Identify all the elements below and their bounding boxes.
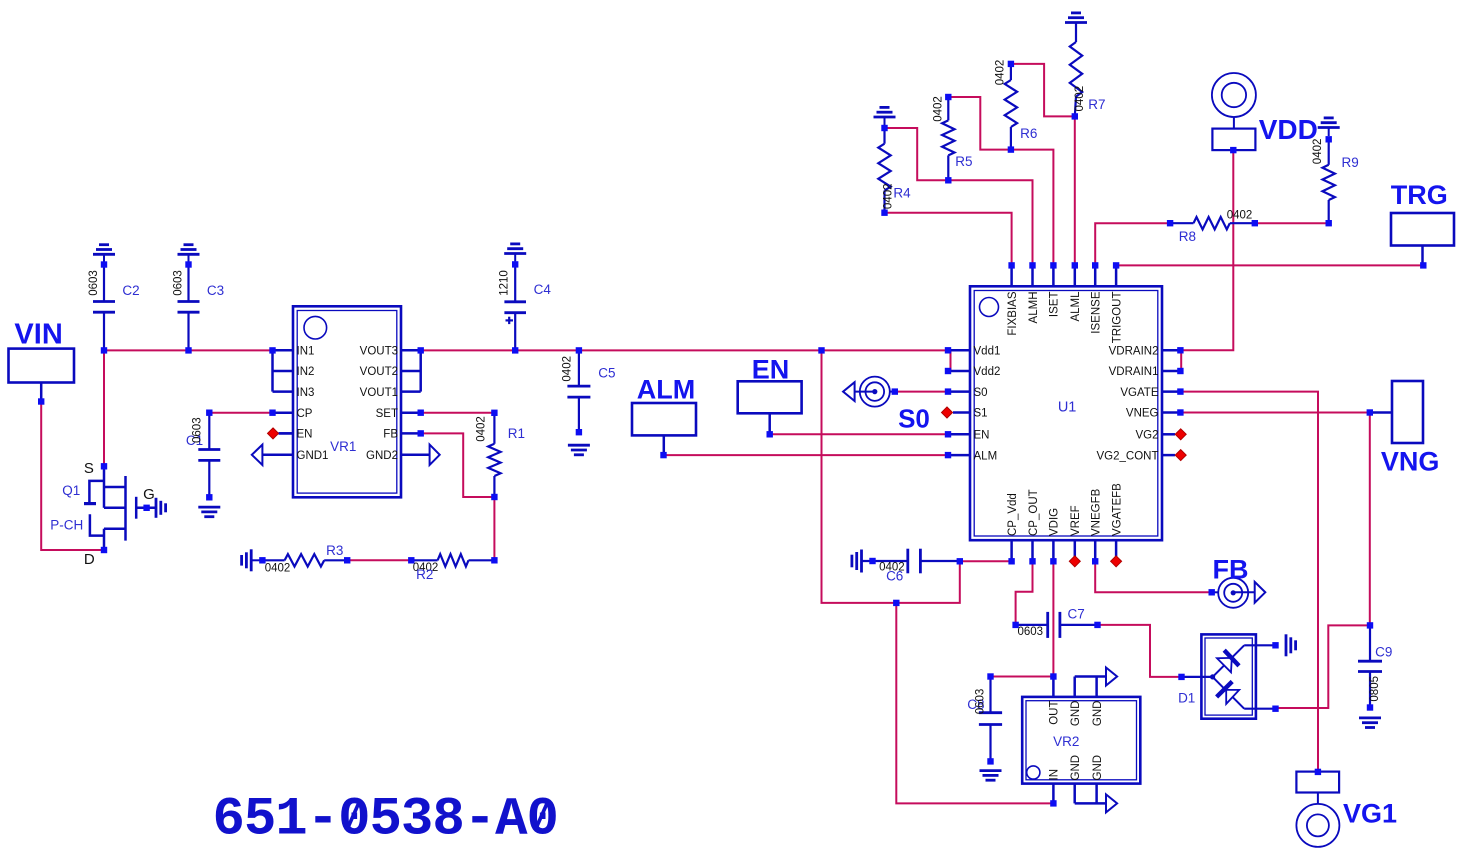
svg-text:Vdd1: Vdd1 — [974, 346, 1001, 358]
capacitor C2 — [88, 254, 140, 350]
ground right of D1 — [1286, 634, 1296, 656]
svg-text:C2: C2 — [122, 283, 139, 298]
junction at 262.4,560.3 — [259, 557, 265, 563]
junction at 1074.8,265.4 — [1072, 262, 1078, 268]
junction at 1095.2,561.3 — [1092, 558, 1098, 564]
ground above R7 — [1065, 13, 1087, 23]
net symbol S0 — [843, 377, 930, 434]
junction at 104,350.4 — [101, 347, 107, 353]
junction at 1097.5,624.9 — [1094, 622, 1100, 628]
wire C1 to CP pin — [209, 412, 272, 414]
no-connect U1 VG2 — [1175, 429, 1186, 440]
svg-text:D1: D1 — [1178, 691, 1195, 706]
svg-text:0805: 0805 — [1369, 676, 1381, 702]
port ALM — [632, 375, 696, 453]
ground above R9 — [1318, 118, 1340, 128]
junction at 1032.5,265.4 — [1029, 262, 1035, 268]
junction at 1015.6,624.9 — [1012, 622, 1018, 628]
ground above R4 — [874, 107, 896, 117]
junction at 104,466.3 — [101, 463, 107, 469]
junction at 1275.5,645.3 — [1272, 642, 1278, 648]
svg-text:P-CH: P-CH — [50, 517, 83, 532]
svg-text:IN1: IN1 — [297, 346, 315, 358]
svg-text:U1: U1 — [1058, 400, 1077, 416]
junction at 1011.6,561.3 — [1008, 558, 1014, 564]
wire R3 to R2 — [347, 559, 411, 561]
resistor R3 — [251, 543, 347, 575]
wire ALM port to ALM pin — [664, 454, 949, 456]
junction at 1170.1,223.2 — [1167, 220, 1173, 226]
svg-text:G: G — [143, 486, 155, 503]
svg-text:VGATEFB: VGATEFB — [1111, 483, 1123, 536]
svg-text:VG2_CONT: VG2_CONT — [1097, 450, 1159, 462]
junction at 411.3,560.3 — [408, 557, 414, 563]
wire C7 right to D1 left — [1098, 625, 1182, 677]
svg-text:0402: 0402 — [1227, 209, 1253, 221]
capacitor C3 — [173, 254, 225, 350]
capacitor C6 — [852, 549, 960, 584]
svg-text:IN2: IN2 — [297, 366, 315, 378]
junction at 990.5,761.4 — [987, 758, 993, 764]
svg-text:VGATE: VGATE — [1120, 387, 1158, 399]
svg-text:C5: C5 — [598, 366, 615, 381]
junction at 1095.2,265.4 — [1092, 262, 1098, 268]
svg-text:VG2: VG2 — [1135, 430, 1158, 442]
svg-text:ALMH: ALMH — [1028, 292, 1040, 324]
junction at 884.5,128 — [881, 125, 887, 131]
junction at 948,455.1 — [945, 452, 951, 458]
svg-text:0402: 0402 — [476, 416, 488, 442]
svg-text:EN: EN — [974, 430, 990, 442]
ground arrow VR2 bottom — [1106, 794, 1117, 812]
wire R1 bottom to R2 right — [493, 497, 495, 560]
resistor R4 — [878, 117, 911, 213]
svg-text:0402: 0402 — [933, 96, 945, 122]
junction at 948,391.6 — [945, 388, 951, 394]
junction at 1180.4,350.3 — [1177, 347, 1183, 353]
junction at 1211.7,592.3 — [1209, 589, 1215, 595]
junction at 104,264.5 — [101, 261, 107, 267]
ground below C5 — [568, 445, 590, 455]
svg-text:VDIG: VDIG — [1049, 508, 1061, 536]
junction at 769.7,434.3 — [767, 431, 773, 437]
ground at Q1 gate — [156, 498, 166, 518]
svg-text:0603: 0603 — [1018, 626, 1044, 638]
junction at 959.8,561.3 — [957, 558, 963, 564]
no-connect U1 VREF — [1069, 556, 1080, 567]
svg-text:VNEG: VNEG — [1126, 408, 1159, 420]
svg-text:VOUT2: VOUT2 — [360, 366, 398, 378]
svg-text:VDD: VDD — [1259, 114, 1318, 145]
junction at 872.5,561 — [869, 558, 875, 564]
junction at 990.5,676.5 — [987, 673, 993, 679]
wire R5 top to R6 bottom — [948, 97, 1011, 150]
svg-text:VR1: VR1 — [330, 439, 356, 454]
junction at 894.8,391.6 — [892, 388, 898, 394]
svg-text:C7: C7 — [1067, 607, 1084, 622]
junction at 1180.4,371.0 — [1177, 368, 1183, 374]
svg-text:R1: R1 — [508, 426, 525, 441]
junction at 578.9,350.4 — [576, 347, 582, 353]
IC U1 — [948, 265, 1180, 561]
wire R7 bottom to ALML pin — [1074, 116, 1076, 265]
resistor R7 — [1070, 23, 1106, 117]
svg-text:GND: GND — [1070, 701, 1082, 727]
svg-text:C4: C4 — [534, 282, 552, 297]
junction at 884.5,212.7 — [881, 210, 887, 216]
junction at 1423.3,265.4 — [1420, 262, 1426, 268]
junction at 209.3,412.7 — [206, 410, 212, 416]
ground arrow VR2 top — [1106, 668, 1117, 686]
svg-text:VDRAIN1: VDRAIN1 — [1109, 366, 1159, 378]
ground below C8 — [980, 771, 1002, 781]
resistor R2 — [411, 554, 494, 582]
ground above C3 — [178, 245, 200, 255]
transistor Q1 — [50, 460, 156, 568]
svg-text:CP_Vdd: CP_Vdd — [1007, 493, 1019, 536]
svg-text:S0: S0 — [974, 387, 988, 399]
svg-text:0603: 0603 — [173, 270, 185, 296]
junction at 578.9,432.2 — [576, 429, 582, 435]
junction at 272.5,412.7 — [269, 410, 275, 416]
ground left of R3 — [242, 549, 252, 571]
junction at 1032.5,561.3 — [1029, 558, 1035, 564]
svg-text:Q1: Q1 — [62, 483, 80, 498]
svg-text:ISENSE: ISENSE — [1091, 291, 1103, 334]
junction at 1328.7,223.2 — [1326, 220, 1332, 226]
resistor R8 — [1170, 209, 1255, 244]
junction at 1010.9,149.6 — [1008, 146, 1014, 152]
no-connect U1 VG2_CONT — [1175, 450, 1186, 461]
svg-text:GND: GND — [1092, 755, 1104, 781]
svg-text:R9: R9 — [1341, 155, 1358, 170]
capacitor C1 — [186, 413, 220, 498]
svg-text:VNEGFB: VNEGFB — [1091, 488, 1103, 536]
port TRG — [1391, 180, 1454, 263]
junction at 948,371.0 — [945, 368, 951, 374]
junction at 821.5,350.4 — [818, 347, 824, 353]
svg-text:VIN: VIN — [14, 319, 62, 351]
svg-text:R3: R3 — [326, 543, 343, 558]
svg-text:ALM: ALM — [637, 375, 695, 405]
junction at 209.3,497.3 — [206, 494, 212, 500]
wire bus branch to C6/VR2 — [822, 350, 960, 603]
wire VDIG to VR2 OUT — [1052, 561, 1054, 676]
junction at 1010.9,63.9 — [1008, 61, 1014, 67]
junction at 272.5,350.4 — [269, 347, 275, 353]
no-connect U1 S1 — [942, 407, 953, 418]
no-connect VR1 EN — [268, 428, 294, 439]
junction at 515.2,350.4 — [512, 347, 518, 353]
junction at 1275.5,708.7 — [1272, 706, 1278, 712]
junction at 188.5,350.4 — [185, 347, 191, 353]
junction at 1328.7,139.3 — [1326, 136, 1332, 142]
IC VR2 — [1022, 677, 1140, 804]
port EN — [738, 355, 802, 432]
svg-text:Vdd2: Vdd2 — [974, 366, 1001, 378]
wire VIN bus to Q1 source — [103, 350, 105, 466]
resistor R5 — [933, 96, 973, 180]
resistor R9 — [1312, 128, 1359, 224]
svg-text:TRG: TRG — [1391, 180, 1448, 210]
port VNG — [1370, 381, 1440, 477]
junction at 41.2,401.5 — [38, 398, 44, 404]
svg-text:GND: GND — [1070, 755, 1082, 781]
wire EN port to EN pin — [770, 433, 948, 435]
junction at 948,350.3 — [945, 347, 951, 353]
diode D1 — [1178, 634, 1275, 718]
svg-text:C6: C6 — [886, 569, 903, 584]
wire main bus C2-C3-IN1 — [104, 349, 273, 351]
svg-text:C9: C9 — [1375, 645, 1392, 660]
svg-text:0603: 0603 — [88, 270, 100, 296]
svg-text:R5: R5 — [955, 154, 972, 169]
wire ISENSE to R8 left — [1095, 223, 1170, 265]
svg-text:FB: FB — [1213, 555, 1249, 585]
svg-text:VOUT1: VOUT1 — [360, 387, 398, 399]
svg-text:VDRAIN2: VDRAIN2 — [1109, 346, 1159, 358]
wire CP_OUT to C7 left — [1016, 561, 1033, 625]
svg-text:0603: 0603 — [975, 689, 987, 715]
junction at 104,550 — [101, 547, 107, 553]
wire R8 right to R9 bottom — [1255, 222, 1329, 224]
junction at 1180.4,391.6 — [1177, 388, 1183, 394]
junction at 1011.6,265.4 — [1008, 262, 1014, 268]
svg-text:0603: 0603 — [191, 417, 203, 443]
svg-text:R8: R8 — [1179, 229, 1196, 244]
wire C9 node to D1 bottom — [1276, 625, 1371, 708]
wire R4 top to R5 bottom — [885, 128, 949, 180]
port VIN — [9, 319, 75, 400]
svg-text:ALM: ALM — [974, 450, 998, 462]
wire SET to R1 top — [421, 412, 495, 414]
ground below C1 — [198, 507, 220, 517]
svg-text:S1: S1 — [974, 408, 988, 420]
resistor R6 — [995, 60, 1038, 150]
wire C6 to CP_Vdd — [960, 560, 1012, 562]
svg-text:EN: EN — [752, 355, 790, 385]
wire R6 top to R7 bottom — [1011, 64, 1075, 117]
svg-text:1210: 1210 — [498, 270, 510, 296]
wire bus VOUT3 to Vdd1 — [421, 349, 948, 351]
junction at 1369.8,412.5 — [1367, 409, 1373, 415]
wire VNG node down to C9 — [1369, 413, 1371, 626]
svg-text:IN3: IN3 — [297, 387, 315, 399]
svg-text:VG1: VG1 — [1343, 799, 1397, 829]
op-amp VR1 (regulator) — [262, 306, 429, 497]
svg-text:0402: 0402 — [995, 60, 1007, 86]
resistor R1 — [476, 413, 525, 497]
ground arrow GND1 — [252, 445, 263, 465]
svg-text:CP: CP — [297, 408, 313, 420]
wire VNEGFB to FB port — [1095, 561, 1212, 592]
ground arrow GND2 — [430, 445, 440, 465]
junction at 1370,625.4 — [1367, 622, 1373, 628]
svg-text:GND1: GND1 — [297, 450, 329, 462]
power symbol VG1 — [1296, 772, 1397, 847]
svg-text:OUT: OUT — [1049, 701, 1061, 725]
svg-text:SET: SET — [376, 408, 398, 420]
svg-text:TRIGOUT: TRIGOUT — [1111, 292, 1123, 344]
wire VDRAIN2-VDRAIN1 link — [1180, 350, 1182, 371]
wire C8 to VR2 OUT — [991, 676, 1054, 678]
svg-text:VNG: VNG — [1381, 447, 1440, 477]
svg-text:0402: 0402 — [265, 563, 291, 575]
svg-text:S0: S0 — [898, 404, 930, 434]
capacitor C7 — [1016, 607, 1098, 639]
svg-text:R6: R6 — [1020, 126, 1037, 141]
svg-text:R2: R2 — [416, 567, 433, 582]
svg-text:VOUT3: VOUT3 — [360, 346, 398, 358]
svg-text:0402: 0402 — [1312, 139, 1324, 165]
svg-text:0402: 0402 — [1074, 86, 1086, 112]
svg-text:VR2: VR2 — [1053, 734, 1079, 749]
svg-text:FIXBIAS: FIXBIAS — [1007, 291, 1019, 335]
junction at 948.3,97 — [945, 94, 951, 100]
svg-text:651-0538-A0: 651-0538-A0 — [213, 790, 558, 851]
junction at 896.3,602.9 — [893, 600, 899, 606]
svg-text:ALML: ALML — [1070, 291, 1082, 322]
junction at 420.7,433.4 — [418, 430, 424, 436]
junction at 1053.4,676.5 — [1050, 673, 1056, 679]
junction at 420.7,350.4 — [418, 347, 424, 353]
wire branch to VR2 IN — [896, 603, 1053, 804]
wire VDD to VDRAIN2 — [1180, 150, 1233, 350]
capacitor C8 — [967, 677, 1002, 762]
svg-text:S: S — [84, 460, 94, 477]
junction at 1317.9,771.9 — [1315, 769, 1321, 775]
junction at 420.7,412.7 — [418, 410, 424, 416]
wire VNEG to VNG port — [1180, 412, 1369, 414]
capacitor C5 — [562, 350, 616, 432]
wire FB(VR1) to R1 bottom — [421, 433, 495, 497]
junction at 188.5,264.5 — [185, 261, 191, 267]
wire R6 bottom to ISET pin — [1011, 150, 1054, 266]
junction at 494.4,497 — [491, 494, 497, 500]
wire VIN to Q1 drain — [41, 402, 104, 551]
ground above C2 — [93, 245, 115, 255]
svg-text:CP_OUT: CP_OUT — [1028, 489, 1040, 536]
wire R4 bottom to FIXBIAS pin — [885, 213, 1012, 266]
ground below C9 — [1359, 718, 1381, 728]
wire TRIGOUT to TRG port — [1116, 264, 1423, 266]
svg-text:C3: C3 — [207, 283, 224, 298]
svg-text:FB: FB — [383, 429, 398, 441]
junction at 1053.4,561.3 — [1050, 558, 1056, 564]
svg-text:EN: EN — [297, 429, 313, 441]
junction at 347.2,560.3 — [344, 557, 350, 563]
junction at 494.4,560.3 — [491, 557, 497, 563]
svg-text:R4: R4 — [893, 186, 911, 201]
svg-text:R7: R7 — [1088, 97, 1105, 112]
junction at 146.6,507.8 — [143, 505, 149, 511]
junction at 1254.8,223.2 — [1252, 220, 1258, 226]
junction at 1053.4,265.4 — [1050, 262, 1056, 268]
wire VGATE to VG1 — [1180, 392, 1318, 772]
junction at 1370,707.5 — [1367, 704, 1373, 710]
capacitor C9 — [1358, 625, 1392, 707]
junction at 494.4,412.8 — [491, 410, 497, 416]
net symbol FB — [1212, 555, 1266, 608]
ground above C4 — [504, 244, 526, 254]
wire S0 port to S0 pin — [895, 391, 948, 393]
no-connect U1 VGATEFB — [1111, 556, 1122, 567]
junction at 663.5,455.1 — [660, 452, 666, 458]
svg-text:IN: IN — [1049, 769, 1061, 781]
junction at 948,434.3 — [945, 431, 951, 437]
junction at 1233.3,150.1 — [1230, 147, 1236, 153]
svg-text:0402: 0402 — [562, 356, 574, 382]
junction at 1074.8,116.4 — [1072, 113, 1078, 119]
power symbol VDD — [1212, 73, 1318, 150]
wire Vdd1-Vdd2 link — [950, 350, 952, 371]
junction at 1116.1,265.4 — [1113, 262, 1119, 268]
svg-text:ISET: ISET — [1049, 292, 1061, 318]
capacitor C4 — [498, 254, 551, 351]
junction at 1053.4,803.4 — [1050, 800, 1056, 806]
svg-text:VREF: VREF — [1070, 505, 1082, 536]
junction at 1181.5,676.9 — [1178, 674, 1184, 680]
title 651-0538-A0 — [213, 790, 558, 851]
svg-text:GND: GND — [1092, 701, 1104, 727]
svg-text:D: D — [84, 551, 95, 568]
junction at 1180.4,412.5 — [1177, 409, 1183, 415]
junction at 948.3,180.3 — [945, 177, 951, 183]
junction at 515.2,264.4 — [512, 261, 518, 267]
wire R5 bottom to ALMH pin — [948, 180, 1032, 265]
svg-text:GND2: GND2 — [366, 450, 398, 462]
